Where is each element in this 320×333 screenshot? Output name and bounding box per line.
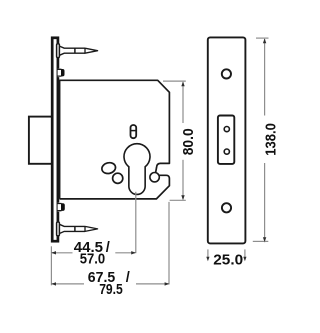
svg-text:57.0: 57.0 (80, 252, 105, 268)
strike plate (208, 37, 246, 243)
plate middle small hole top (224, 127, 229, 132)
svg-text:25.0: 25.0 (213, 253, 243, 269)
svg-text:/: / (106, 240, 110, 256)
bottom fixing screw (57, 222, 98, 236)
left circle hole (113, 173, 123, 183)
dim extension line case right (168, 202, 170, 285)
dim extension line cylinder centre (135, 192, 137, 253)
svg-text:80.0: 80.0 (181, 128, 197, 155)
right notch circle hole (150, 173, 159, 182)
bottom boss knob (57, 203, 65, 212)
svg-text:79.5: 79.5 (99, 282, 123, 298)
plate bottom hole (222, 203, 231, 212)
top fixing screw (57, 44, 98, 58)
top boss knob (57, 69, 65, 78)
dimension 80.0 (163, 81, 186, 200)
left oval hole (101, 161, 117, 175)
svg-text:/: / (126, 270, 130, 286)
plate middle rectangle (218, 116, 234, 164)
dimension 25.0 (208, 249, 245, 258)
screw boss capsule above cylinder (130, 125, 137, 138)
deadbolt (29, 117, 53, 164)
faceplate (52, 38, 58, 241)
lock case (60, 80, 170, 199)
dimension 44.5/57.0 line (52, 252, 135, 254)
plate top hole (222, 69, 231, 78)
dimension 67.5/79.5 line (52, 283, 169, 285)
euro cylinder cutout (124, 144, 150, 195)
dim extension line left (faceplate) (50, 246, 52, 285)
plate middle small hole bottom (224, 149, 229, 154)
svg-text:138.0: 138.0 (264, 123, 280, 156)
dimension 138.0 (253, 38, 269, 242)
